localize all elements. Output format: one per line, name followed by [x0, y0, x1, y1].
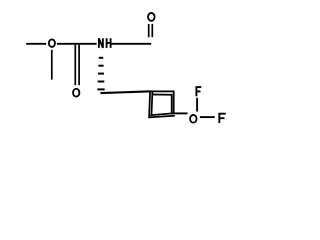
- atom O1 ester oxygen: [49, 39, 55, 47]
- wire C=O2 double bond line 1: [74, 45, 76, 85]
- wire methyl-to-O1 bond: [26, 43, 46, 45]
- ring inner top and inner right edges: [152, 95, 171, 115]
- wire O1-down-methyl bond: [51, 50, 53, 80]
- ring bottom edge: [150, 113, 173, 115]
- ring lower bottom edge: [148, 116, 175, 118]
- atom F1 fluorine top: [196, 86, 202, 96]
- wire NH-to-formylC bond: [111, 43, 151, 45]
- atom F2 fluorine right: [218, 113, 225, 123]
- wire O1-to-C-to-N bond: [57, 43, 97, 45]
- atom N of NH: [99, 38, 103, 48]
- ring top and right edges: [150, 91, 174, 114]
- wire C=O2 double bond line 2: [78, 45, 80, 85]
- ring inner left edge: [151, 91, 154, 114]
- wire formyl C=O3 double bond line 2: [151, 24, 153, 37]
- atom O3 formyl oxygen: [148, 13, 155, 21]
- wire stereocenter chain bond to ring: [101, 91, 151, 93]
- wire ring-to-O4 bond: [174, 112, 188, 114]
- hash wedge dash 3: [98, 73, 104, 75]
- atom H of NH: [106, 38, 112, 48]
- atom O4 ether oxygen: [190, 115, 197, 123]
- ring left edge: [149, 91, 150, 117]
- hash wedge dash 4: [98, 81, 105, 83]
- atom O2 carbonyl oxygen: [73, 89, 79, 97]
- wire O4-to-F2 bond: [200, 116, 215, 118]
- wire O4-to-F1 bond: [196, 98, 198, 112]
- hash wedge dash 5: [97, 88, 104, 90]
- wire formyl C=O3 double bond line 1: [148, 24, 150, 37]
- hash wedge dash 2: [98, 65, 103, 67]
- hash wedge dash 1: [99, 57, 104, 59]
